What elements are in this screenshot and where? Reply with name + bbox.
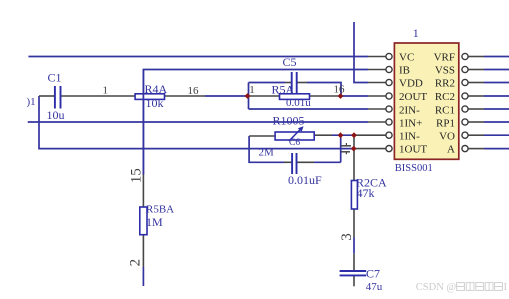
svg-text:0.01u: 0.01u bbox=[286, 97, 311, 109]
svg-text:I: I bbox=[504, 282, 507, 293]
svg-text:1OUT: 1OUT bbox=[399, 144, 427, 156]
svg-text:1: 1 bbox=[103, 85, 109, 97]
svg-text:RC1: RC1 bbox=[435, 104, 455, 116]
svg-text:1IN-: 1IN- bbox=[399, 131, 420, 143]
svg-text:RR2: RR2 bbox=[435, 78, 455, 90]
svg-text:15: 15 bbox=[128, 168, 144, 183]
svg-text:VDD: VDD bbox=[399, 78, 423, 90]
svg-text:A: A bbox=[447, 144, 455, 156]
svg-text:R4A: R4A bbox=[145, 82, 168, 96]
svg-text:)1: )1 bbox=[27, 96, 36, 108]
svg-text:R1005: R1005 bbox=[273, 114, 305, 128]
svg-text:VO: VO bbox=[439, 131, 455, 143]
svg-text:10k: 10k bbox=[146, 96, 164, 110]
svg-text:BISS001: BISS001 bbox=[395, 163, 433, 174]
svg-text:CSDN @: CSDN @ bbox=[416, 282, 457, 293]
svg-text:VRF: VRF bbox=[434, 52, 455, 64]
svg-text:R5A: R5A bbox=[272, 83, 295, 97]
svg-text:2: 2 bbox=[128, 259, 144, 267]
svg-text:1: 1 bbox=[249, 84, 255, 96]
svg-text:47k: 47k bbox=[357, 186, 375, 200]
svg-text:3: 3 bbox=[339, 233, 355, 241]
svg-text:VSS: VSS bbox=[435, 65, 455, 77]
svg-text:C5: C5 bbox=[283, 55, 297, 69]
svg-text:RC2: RC2 bbox=[435, 91, 455, 103]
svg-text:R5BA: R5BA bbox=[146, 204, 174, 216]
svg-text:16: 16 bbox=[188, 85, 200, 97]
svg-text:VC: VC bbox=[399, 52, 414, 64]
svg-text:C7: C7 bbox=[366, 267, 380, 281]
svg-text:0.01uF: 0.01uF bbox=[288, 173, 322, 187]
svg-text:16: 16 bbox=[334, 84, 346, 96]
svg-text:10u: 10u bbox=[47, 108, 65, 122]
svg-text:2OUT: 2OUT bbox=[399, 91, 427, 103]
svg-text:2M: 2M bbox=[259, 147, 275, 159]
svg-text:IB: IB bbox=[399, 65, 410, 77]
svg-text:RP1: RP1 bbox=[436, 117, 455, 129]
svg-text:2IN-: 2IN- bbox=[399, 104, 420, 116]
svg-text:1M: 1M bbox=[146, 215, 163, 229]
svg-text:47u: 47u bbox=[366, 281, 383, 293]
svg-text:C1: C1 bbox=[48, 71, 62, 85]
svg-text:1IN+: 1IN+ bbox=[399, 117, 422, 129]
svg-text:1: 1 bbox=[413, 26, 419, 40]
svg-text:C6: C6 bbox=[289, 138, 300, 148]
